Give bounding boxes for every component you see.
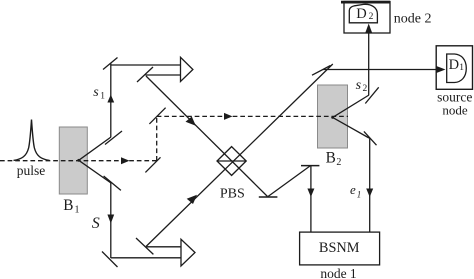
mirror top-left (45 deg) — [103, 58, 118, 70]
wire B2 upper split beam — [333, 95, 369, 117]
detector D2 box — [344, 2, 390, 34]
arrow down on S beam — [107, 215, 114, 224]
wire top delay upper line — [111, 64, 181, 66]
detector D2 symbol — [349, 4, 377, 22]
detector D1 symbol — [447, 54, 467, 83]
beam splitter B1 (gray block) — [59, 127, 87, 194]
svg-text:2: 2 — [369, 12, 374, 22]
wire B2 lower split beam — [333, 117, 369, 138]
wire B1 upper split beam — [79, 137, 111, 160]
svg-text:node 1: node 1 — [320, 266, 356, 279]
arrow down on e1 beam — [366, 189, 373, 198]
svg-text:B: B — [63, 197, 73, 214]
wire e1 vertical beam to BSNM — [369, 138, 371, 232]
mirror shallow (to D1) — [312, 66, 331, 76]
mirror at dashed upper corner — [149, 108, 165, 124]
pulse waveform — [14, 120, 50, 161]
PBS internal diagonal — [217, 160, 246, 162]
mirror slash at B1 lower kink — [104, 176, 121, 190]
arrow on dashed upper beam — [224, 113, 233, 120]
open arrow head of bottom delay — [181, 239, 195, 266]
wire B1 lower split beam — [79, 160, 111, 183]
wire dashed input beam (horizontal, through pulse and B1) — [0, 160, 157, 162]
wire S vertical beam — [110, 183, 112, 258]
mirror bottom second (to PBS) — [136, 238, 153, 254]
arrow into D1 — [436, 66, 445, 73]
svg-text:B: B — [326, 150, 336, 167]
svg-text:1: 1 — [357, 189, 362, 199]
arrow up on s1 beam — [107, 95, 114, 103]
wire top delay return line — [145, 74, 180, 76]
svg-text:2: 2 — [363, 84, 368, 94]
wire horizontal beam to D1 — [323, 69, 437, 71]
svg-text:1: 1 — [75, 204, 80, 215]
svg-text:D: D — [449, 57, 459, 73]
arrow on dashed input beam — [121, 157, 130, 164]
svg-text:D: D — [356, 6, 366, 22]
svg-text:e: e — [350, 182, 356, 197]
svg-text:1: 1 — [459, 63, 464, 73]
svg-text:s: s — [93, 85, 99, 100]
mirror slash at B2 upper kink — [365, 87, 378, 103]
arrow on down-right diagonal — [186, 117, 196, 126]
wire s1 vertical beam — [110, 64, 112, 138]
svg-text:pulse: pulse — [17, 163, 46, 178]
svg-text:s: s — [356, 78, 362, 93]
svg-text:1: 1 — [100, 91, 105, 101]
wire bottom delay lower line — [111, 257, 181, 259]
wire beam between mirror bars — [268, 166, 310, 197]
mirror slash at B1 upper kink — [105, 131, 122, 145]
mirror at dashed lower corner — [145, 157, 160, 172]
arrow down to BSNM left — [307, 189, 314, 198]
open arrow head of top delay — [181, 57, 193, 81]
mirror slash at B2 lower kink — [364, 131, 377, 145]
node B1 vertex — [77, 159, 80, 162]
svg-text:node 2: node 2 — [394, 12, 432, 27]
mirror top second (to PBS) — [137, 67, 153, 82]
wire bottom delay return line — [147, 246, 182, 248]
wire diagonal beam bottom mirror to upper-right mirror — [146, 64, 333, 247]
PBS cube (rotated square) — [217, 147, 246, 176]
mirror bottom-left (45 deg) — [102, 252, 118, 268]
wire vertical beam to BSNM (left) — [310, 166, 312, 232]
wire diagonal beam top mirror to lower-right mirror bar — [146, 76, 268, 197]
mirror bar lower (below PBS output) — [259, 196, 278, 198]
wire s2 vertical beam to D2 — [368, 33, 370, 95]
svg-text:2: 2 — [336, 157, 341, 168]
beam splitter B2 (gray block) — [318, 85, 348, 148]
svg-text:PBS: PBS — [220, 187, 245, 202]
arrow up into D2 — [365, 24, 372, 34]
wire dashed vertical riser — [156, 116, 158, 160]
detector D1 box — [436, 46, 472, 90]
svg-text:BSNM: BSNM — [319, 240, 360, 256]
arrow on up-right diagonal — [187, 195, 197, 204]
node B2 vertex — [331, 116, 334, 119]
svg-text:S: S — [92, 215, 100, 232]
mirror bar upper — [301, 165, 319, 167]
wire dashed upper beam to B2 — [157, 115, 348, 117]
BSNM box — [300, 232, 380, 265]
svg-text:node: node — [442, 103, 468, 118]
